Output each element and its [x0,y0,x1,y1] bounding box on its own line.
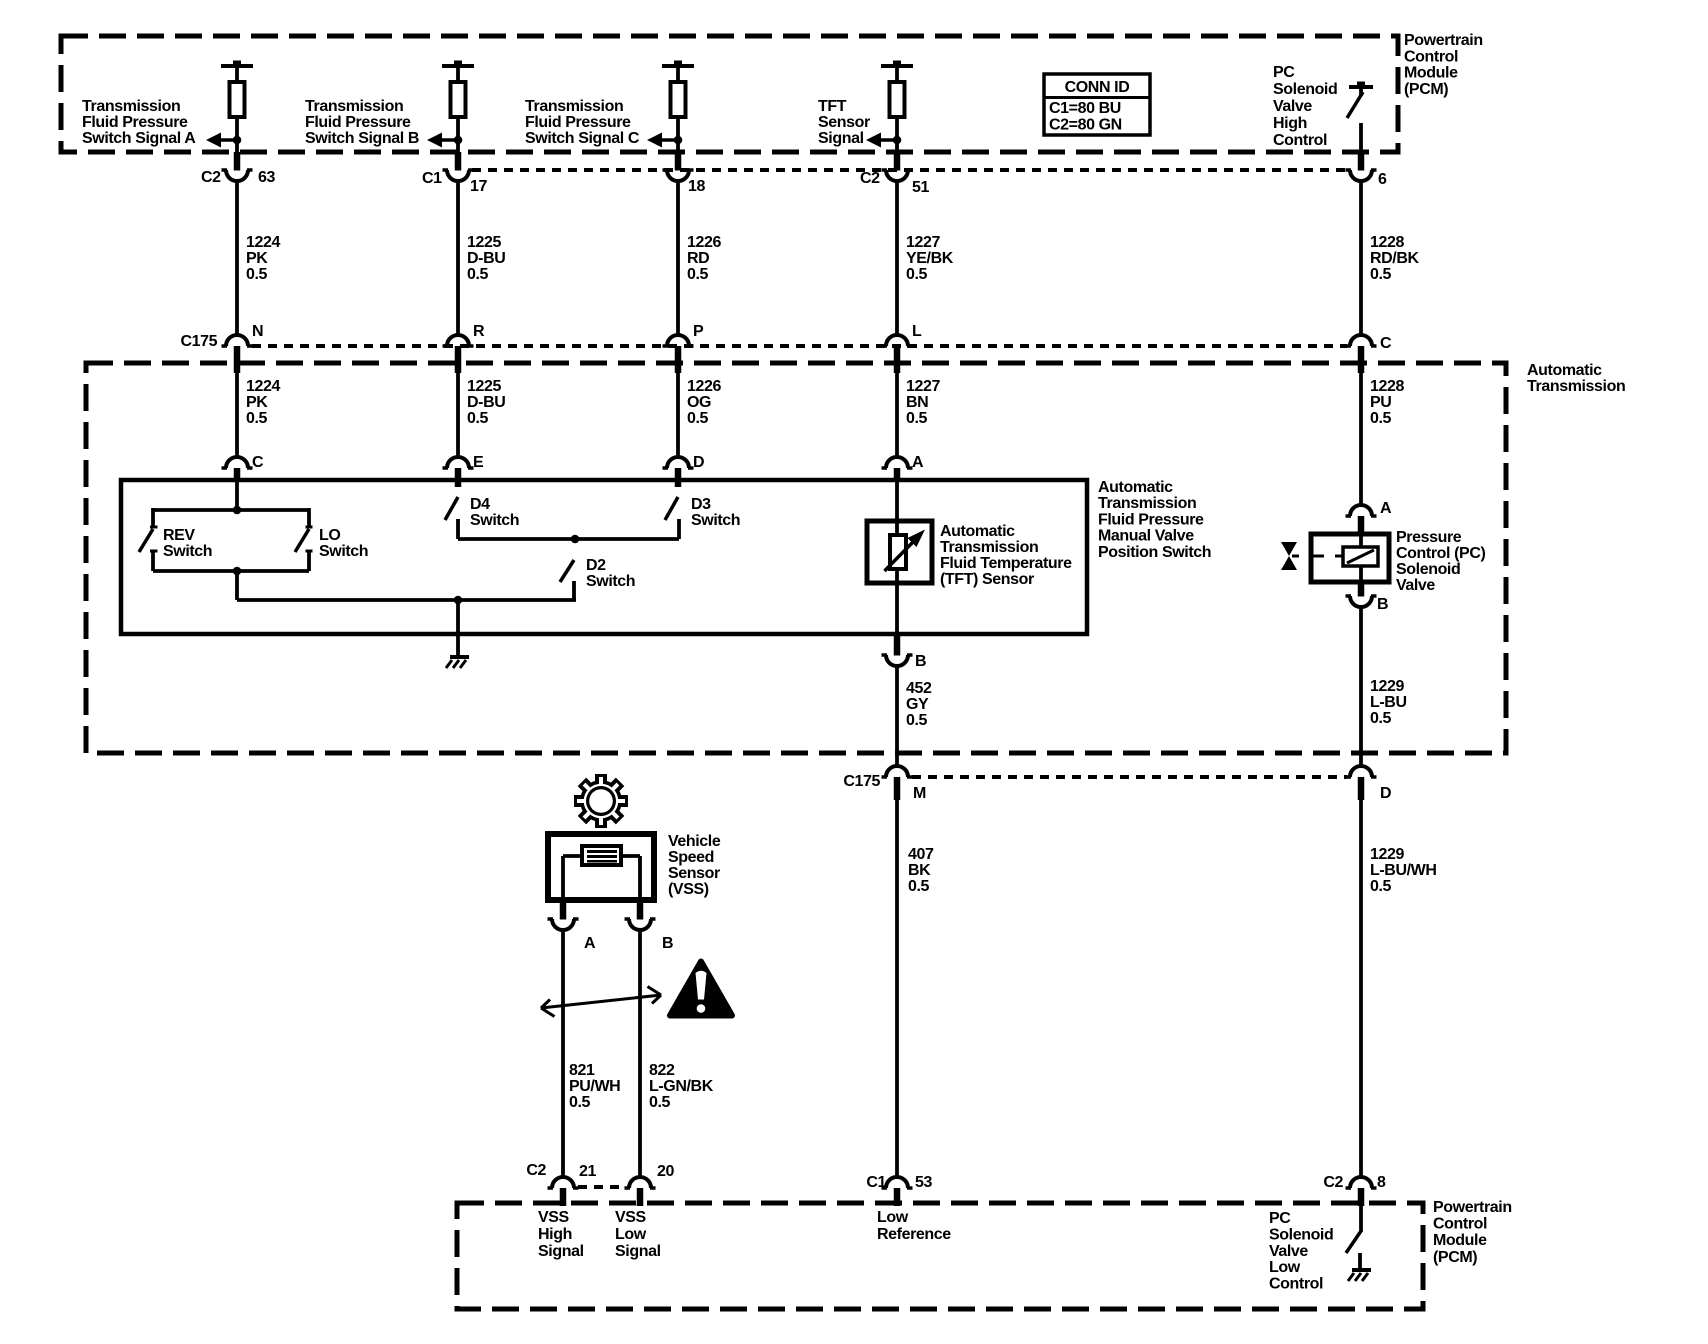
svg-text:1226: 1226 [687,234,721,251]
svg-text:0.5: 0.5 [1370,266,1392,283]
wire M to C1-53 [895,800,899,1177]
connector C175 pin M [886,766,908,777]
junction node (x=237,140) [233,136,242,145]
svg-text:0.5: 0.5 [1370,710,1392,727]
dotted connector row line C1/C2 (top) [472,168,1347,172]
svg-text:Transmission: Transmission [82,98,180,115]
svg-text:0.5: 0.5 [467,266,489,283]
switch D2 [560,560,574,582]
twisted pair arrow [541,995,661,1008]
junction node (x=897,140) [893,136,902,145]
svg-text:A: A [584,935,596,952]
switch PC Solenoid Valve High Control (inside PCM) [1349,85,1373,89]
connector pin E (switch assembly) [447,457,469,468]
svg-text:1227: 1227 [906,378,940,395]
svg-text:High: High [538,1226,572,1243]
svg-text:Switch: Switch [163,543,212,560]
svg-text:0.5: 0.5 [906,712,928,729]
connector pin 21 (C2) [552,1177,574,1188]
svg-text:Module: Module [1433,1232,1487,1249]
wire C175-C to PC solenoid [1359,373,1363,505]
svg-text:LO: LO [319,527,340,544]
svg-text:A: A [1380,500,1392,517]
connector C175 pin P [667,335,689,346]
svg-text:BK: BK [908,862,931,879]
switch D4 [455,481,462,487]
svg-text:Switch: Switch [586,573,635,590]
svg-text:Control (PC): Control (PC) [1396,545,1485,562]
svg-text:Powertrain: Powertrain [1433,1199,1512,1216]
svg-text:407: 407 [908,846,934,863]
svg-text:Transmission: Transmission [525,98,623,115]
svg-text:0.5: 0.5 [467,410,489,427]
svg-text:Reference: Reference [877,1226,951,1243]
svg-text:Switch: Switch [319,543,368,560]
VSS box [548,834,654,900]
wire C175 to switch assembly (x=237) [235,373,239,457]
svg-text:1228: 1228 [1370,234,1404,251]
wire lower right LO [306,550,313,553]
resistor pull-up (x=678) [662,64,694,68]
svg-text:Control: Control [1269,1276,1323,1293]
svg-text:Speed: Speed [668,849,714,866]
connector C175 pin D [1350,766,1372,777]
wire C175 to switch assembly (x=897) [895,373,899,457]
svg-text:Fluid Pressure: Fluid Pressure [1098,511,1204,528]
svg-text:C1=80 BU: C1=80 BU [1049,100,1121,117]
connector pin A (VSS) [560,900,567,920]
svg-text:L-GN/BK: L-GN/BK [649,1078,714,1095]
connector pin B (PC solenoid) [1358,582,1365,597]
svg-text:Automatic: Automatic [1098,479,1173,496]
svg-text:RD: RD [687,250,709,267]
switch LO [307,508,311,527]
wire resistor to connector (x=458) [456,117,460,152]
svg-text:Switch: Switch [470,512,519,529]
svg-text:0.5: 0.5 [687,266,709,283]
svg-text:21: 21 [579,1163,596,1180]
svg-text:B: B [1377,596,1388,613]
svg-text:B: B [662,935,673,952]
svg-text:0.5: 0.5 [906,410,928,427]
svg-text:D3: D3 [691,496,711,513]
ground (switch assembly) [450,655,469,659]
svg-text:1224: 1224 [246,234,280,251]
svg-text:C2=80 GN: C2=80 GN [1049,117,1122,134]
VSS pickup coil [582,846,621,865]
svg-text:Fluid Temperature: Fluid Temperature [940,555,1072,572]
svg-text:Fluid Pressure: Fluid Pressure [305,114,411,131]
dotted line pins 21-20 [578,1185,625,1189]
svg-text:High: High [1273,115,1307,132]
svg-text:1229: 1229 [1370,846,1404,863]
svg-text:C1: C1 [866,1174,886,1191]
wire D4-D3 bus [458,537,679,541]
junction node (x=458,140) [454,136,463,145]
connector pin A (switch assembly) [886,457,908,468]
svg-text:D4: D4 [470,496,490,513]
wire D to C2-8 [1359,800,1363,1177]
svg-text:(TFT) Sensor: (TFT) Sensor [940,571,1034,588]
svg-text:63: 63 [258,169,275,186]
wire C to REV/LO switches [235,481,239,510]
svg-text:822: 822 [649,1062,675,1079]
svg-text:Module: Module [1404,65,1458,82]
svg-text:Solenoid: Solenoid [1273,81,1337,98]
wire A to TFT sensor [895,481,899,523]
svg-text:Signal: Signal [818,130,864,147]
svg-text:0.5: 0.5 [649,1094,671,1111]
wire resistor to connector (x=237) [235,117,239,152]
svg-text:BN: BN [906,394,928,411]
wire VSS B to 20 [638,929,642,1177]
svg-text:L-BU: L-BU [1370,694,1407,711]
svg-text:Sensor: Sensor [668,865,720,882]
svg-text:C2: C2 [860,170,880,187]
wire resistor to connector (x=897) [895,117,899,152]
connector pin 18 (PCM, x=678) [675,152,682,171]
svg-text:Switch Signal C: Switch Signal C [525,130,640,147]
signal arrow (x=678) [647,133,662,148]
svg-text:Manual Valve: Manual Valve [1098,528,1194,545]
svg-text:Control: Control [1273,132,1327,149]
svg-text:C: C [252,454,264,471]
wire PCM to C175 (x=458) [456,180,460,336]
svg-text:Low: Low [615,1226,647,1243]
connector pin B (VSS) [637,900,644,920]
svg-text:C2: C2 [201,169,221,186]
svg-text:Position Switch: Position Switch [1098,544,1211,561]
wire to ground bus [235,571,239,600]
svg-text:A: A [912,454,924,471]
svg-text:E: E [473,454,484,471]
svg-text:C2: C2 [1323,1174,1343,1191]
svg-text:C1: C1 [422,170,442,187]
svg-text:Valve: Valve [1269,1243,1308,1260]
wire bottom edge REV/LO loop [153,569,309,573]
svg-text:C175: C175 [843,773,880,790]
svg-text:17: 17 [470,178,487,195]
svg-text:PC: PC [1269,1210,1291,1227]
svg-text:1227: 1227 [906,234,940,251]
svg-text:R: R [473,323,485,340]
connector pin 63 (PCM, x=237) [234,152,241,171]
svg-text:CONN ID: CONN ID [1065,79,1130,96]
signal arrow (x=237) [206,133,221,148]
svg-text:Signal: Signal [538,1243,584,1260]
svg-text:Sensor: Sensor [818,114,870,131]
signal arrow (x=897) [866,133,881,148]
connector pin 6 (PCM, x=1361) [1358,152,1365,171]
svg-text:0.5: 0.5 [246,266,268,283]
svg-text:821: 821 [569,1062,595,1079]
Automatic Transmission Fluid Pressure Manual Valve Position Switch box [121,480,1087,634]
svg-text:GY: GY [906,696,929,713]
svg-text:M: M [913,785,926,802]
connector C175 pin N [226,335,248,346]
connector pin 51 (PCM, x=897) [894,152,901,171]
TFT sensor box [867,521,932,583]
svg-text:D-BU: D-BU [467,250,505,267]
svg-text:8: 8 [1377,1174,1386,1191]
svg-text:51: 51 [912,179,929,196]
connector pin A (PC solenoid) [1350,505,1372,516]
svg-text:Low: Low [877,1209,909,1226]
CONN ID table [1044,74,1150,135]
svg-text:6: 6 [1378,171,1387,188]
svg-text:Low: Low [1269,1259,1301,1276]
warning triangle [670,962,732,1016]
wire ground bus [237,598,576,602]
svg-text:Solenoid: Solenoid [1269,1226,1333,1243]
svg-text:D: D [693,454,704,471]
dashed link valve to coil [1292,555,1299,558]
svg-text:Valve: Valve [1396,577,1435,594]
VSS gear icon [574,774,628,828]
svg-text:L: L [912,323,922,340]
wire PCM to C175 (x=678) [676,180,680,336]
wire resistor to connector (x=678) [676,117,680,152]
connector pin 53 (C1) [886,1177,908,1188]
connector pin 20 [629,1177,651,1188]
svg-text:Transmission: Transmission [1098,495,1196,512]
wire top edge REV/LO loop [153,508,309,512]
svg-text:(PCM): (PCM) [1433,1249,1477,1266]
svg-text:Transmission: Transmission [940,539,1038,556]
svg-text:Switch Signal B: Switch Signal B [305,130,419,147]
svg-text:C2: C2 [526,1162,546,1179]
wire B to C175 M [895,665,899,767]
svg-text:20: 20 [657,1163,674,1180]
svg-text:452: 452 [906,680,932,697]
svg-text:Switch: Switch [691,512,740,529]
svg-text:Pressure: Pressure [1396,529,1462,546]
svg-text:1225: 1225 [467,378,501,395]
wire through TFT sensor [895,523,899,583]
switch REV [151,508,155,527]
svg-text:Powertrain: Powertrain [1404,32,1483,49]
svg-text:Fluid Pressure: Fluid Pressure [525,114,631,131]
connector pin 17 (PCM, x=458) [455,152,462,171]
svg-text:1226: 1226 [687,378,721,395]
wire PCM to C175 (x=1361) [1359,180,1363,336]
svg-text:0.5: 0.5 [687,410,709,427]
svg-text:1224: 1224 [246,378,280,395]
svg-text:0.5: 0.5 [569,1094,591,1111]
svg-text:REV: REV [163,527,195,544]
dotted connector row line C175 M-D [912,775,1347,779]
svg-text:0.5: 0.5 [906,266,928,283]
svg-text:PK: PK [246,250,268,267]
svg-text:Switch Signal A: Switch Signal A [82,130,196,147]
connector pin C (switch assembly) [226,457,248,468]
svg-text:Automatic: Automatic [1527,362,1602,379]
wire TFT to pin B [895,583,899,634]
svg-text:Automatic: Automatic [940,523,1015,540]
svg-text:18: 18 [688,178,705,195]
svg-text:1229: 1229 [1370,678,1404,695]
connector C175 row dotted line [252,344,1347,348]
svg-text:Fluid Pressure: Fluid Pressure [82,114,188,131]
svg-text:Solenoid: Solenoid [1396,561,1460,578]
Automatic Transmission box [86,363,1506,753]
svg-text:TFT: TFT [818,98,847,115]
svg-text:OG: OG [687,394,711,411]
svg-text:Control: Control [1404,48,1458,65]
wire C175 to switch assembly (x=458) [456,373,460,457]
node (458,600) [454,596,463,605]
connector pin B (TFT) [894,634,901,656]
svg-text:(VSS): (VSS) [668,881,709,898]
wire PCM to C175 (x=237) [235,180,239,336]
resistor pull-up (x=458) [442,64,474,68]
svg-text:VSS: VSS [615,1209,647,1226]
svg-text:PK: PK [246,394,268,411]
switch PC Solenoid Valve Low Control [1359,1206,1363,1232]
PCM module box (top) [61,36,1398,152]
svg-text:L-BU/WH: L-BU/WH [1370,862,1437,879]
svg-text:PU: PU [1370,394,1391,411]
node (237,510) [233,506,242,515]
PCM module box (bottom) [457,1203,1423,1309]
svg-text:0.5: 0.5 [1370,410,1392,427]
resistor pull-up (x=237) [221,64,253,68]
TFT thermistor element [890,535,906,569]
svg-text:Valve: Valve [1273,98,1312,115]
svg-text:Transmission: Transmission [1527,378,1625,395]
svg-text:N: N [252,323,263,340]
VSS internal wires [563,854,582,858]
svg-text:PC: PC [1273,64,1295,81]
svg-text:VSS: VSS [538,1209,570,1226]
connector C175 pin C [1350,335,1372,346]
svg-text:D2: D2 [586,557,606,574]
svg-text:0.5: 0.5 [246,410,268,427]
svg-text:YE/BK: YE/BK [906,250,954,267]
wire VSS A to C2-21 [561,929,565,1177]
svg-text:(PCM): (PCM) [1404,81,1448,98]
connector pin D (switch assembly) [667,457,689,468]
TFT arrow [885,542,914,571]
svg-text:Vehicle: Vehicle [668,833,721,850]
svg-text:Signal: Signal [615,1243,661,1260]
wire lower left REV [150,550,158,553]
svg-text:PU/WH: PU/WH [569,1078,620,1095]
wire to ground [456,600,460,656]
svg-text:1225: 1225 [467,234,501,251]
switch D3 [675,481,682,487]
signal arrow (x=458) [427,133,442,148]
svg-text:0.5: 0.5 [1370,878,1392,895]
svg-text:Control: Control [1433,1216,1487,1233]
node (237,571) [233,567,242,576]
svg-text:C: C [1380,335,1392,352]
connector C175 pin R [447,335,469,346]
connector C175 pin L [886,335,908,346]
svg-text:53: 53 [915,1174,932,1191]
resistor pull-up (x=897) [881,64,913,68]
svg-text:0.5: 0.5 [908,878,930,895]
PC solenoid coil [1343,547,1378,566]
svg-text:1228: 1228 [1370,378,1404,395]
wire B to C175 D [1359,606,1363,767]
svg-text:D-BU: D-BU [467,394,505,411]
wire C175 to switch assembly (x=678) [676,373,680,457]
connector pin 8 (C2) [1350,1177,1372,1188]
svg-text:D: D [1380,785,1391,802]
junction node (x=678,140) [674,136,683,145]
svg-text:Transmission: Transmission [305,98,403,115]
svg-text:RD/BK: RD/BK [1370,250,1420,267]
svg-text:B: B [915,653,926,670]
PC solenoid valve box [1311,534,1389,582]
wire PCM to C175 (x=897) [895,180,899,336]
node (575,539) [571,535,580,544]
valve symbol (bowtie) [1281,542,1297,556]
ground (PCM) [1352,1268,1371,1272]
svg-text:P: P [693,323,704,340]
svg-text:C175: C175 [181,333,218,350]
